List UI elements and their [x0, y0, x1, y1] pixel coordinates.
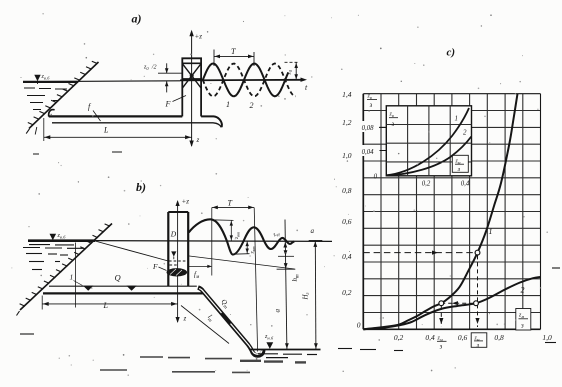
- svg-text:1: 1: [226, 100, 230, 109]
- svg-text:0,04: 0,04: [362, 149, 374, 156]
- svg-text:T: T: [228, 199, 233, 208]
- svg-text:1: 1: [70, 273, 74, 282]
- svg-text:z: z: [196, 136, 200, 144]
- svg-text:0: 0: [374, 174, 378, 181]
- svg-text:0,4: 0,4: [461, 181, 470, 188]
- svg-text:з: з: [369, 102, 373, 109]
- svg-text:zм: zм: [518, 313, 524, 320]
- svg-text:Q: Q: [115, 273, 121, 283]
- svg-text:0,8: 0,8: [342, 186, 352, 195]
- svg-text:1: 1: [489, 227, 493, 236]
- svg-text:0: 0: [357, 321, 361, 330]
- svg-text:F: F: [165, 100, 171, 109]
- svg-text:a): a): [132, 12, 142, 26]
- svg-text:L: L: [103, 126, 109, 135]
- svg-text:/2: /2: [151, 65, 157, 71]
- svg-text:2: 2: [521, 286, 525, 295]
- svg-text:zвт: zвт: [250, 246, 257, 254]
- svg-text:0,6: 0,6: [342, 217, 352, 226]
- svg-text:F: F: [152, 262, 158, 271]
- svg-text:z0: z0: [143, 65, 149, 72]
- svg-text:z: z: [183, 315, 187, 323]
- svg-text:0,4: 0,4: [425, 333, 435, 342]
- svg-text:+z: +z: [195, 33, 203, 41]
- svg-text:0,08: 0,08: [362, 125, 374, 132]
- svg-text:з: з: [439, 344, 443, 351]
- svg-text:T: T: [231, 47, 236, 56]
- svg-text:з: з: [457, 166, 461, 173]
- svg-text:L: L: [103, 301, 109, 310]
- svg-text:1: 1: [455, 115, 459, 123]
- svg-text:0,6: 0,6: [458, 333, 468, 342]
- svg-text:1,4: 1,4: [342, 90, 352, 99]
- svg-text:1,0: 1,0: [542, 333, 552, 342]
- svg-text:з: з: [391, 121, 395, 128]
- svg-text:0,2: 0,2: [342, 288, 352, 297]
- svg-text:b): b): [136, 180, 146, 194]
- svg-text:з: з: [476, 342, 480, 349]
- svg-text:а: а: [311, 227, 315, 235]
- svg-text:D: D: [170, 230, 177, 239]
- svg-text:+z: +z: [182, 198, 190, 206]
- svg-text:з: з: [520, 323, 524, 330]
- svg-text:z0: z0: [287, 69, 294, 75]
- svg-text:2: 2: [463, 129, 467, 137]
- svg-text:1,2: 1,2: [342, 118, 352, 127]
- svg-text:0,2: 0,2: [394, 333, 404, 342]
- svg-text:1,0: 1,0: [342, 151, 352, 160]
- svg-text:0,8: 0,8: [494, 333, 504, 342]
- svg-text:zв: zв: [389, 112, 394, 119]
- svg-text:0,4: 0,4: [342, 252, 352, 261]
- svg-text:а: а: [274, 309, 282, 313]
- svg-text:0,2: 0,2: [422, 181, 431, 188]
- svg-text:2: 2: [250, 101, 254, 110]
- svg-text:c): c): [447, 47, 456, 59]
